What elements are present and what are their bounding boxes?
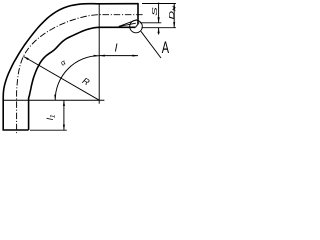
Dn dimension line <box>173 4 175 28</box>
label alpha <box>59 57 68 67</box>
extension line at bottom end <box>30 129 67 131</box>
wall thickness S: inner-wall extension line <box>140 22 162 24</box>
label R <box>81 76 92 88</box>
label Dn <box>168 6 177 19</box>
pipe outer contour (left edge of vertical leg, bend outer arc, top edge of horizontal leg) <box>3 4 138 130</box>
svg-text:S: S <box>151 7 159 16</box>
label l1 <box>45 114 56 120</box>
dimension l (top straight length) <box>99 55 138 57</box>
outer diameter Dn: extension lines <box>142 3 176 5</box>
svg-text:Dн: Dн <box>168 6 177 19</box>
pipe end face (bottom) <box>3 129 29 131</box>
leader line to label A <box>141 31 161 58</box>
S dimension line with arrows <box>158 3 160 23</box>
pipe inner contour (right edge of vertical leg, bend inner arc, bottom edge of horizontal leg) <box>29 27 136 130</box>
weld bevel detail at pipe end <box>119 20 137 27</box>
pipe end face (right) <box>137 3 139 24</box>
tangent line horizontal through bend centre <box>3 99 104 101</box>
detail view circle A <box>130 20 143 33</box>
label S <box>151 7 159 16</box>
radius R dimension line <box>23 56 99 100</box>
dimension l1 (bottom straight length) <box>63 100 65 130</box>
tangent line vertical through bend centre <box>98 4 100 104</box>
angle dimension arc (alpha) <box>55 56 99 100</box>
svg-text:A: A <box>162 38 170 57</box>
centerline (dash-dot axis of pipe) <box>17 15 143 135</box>
